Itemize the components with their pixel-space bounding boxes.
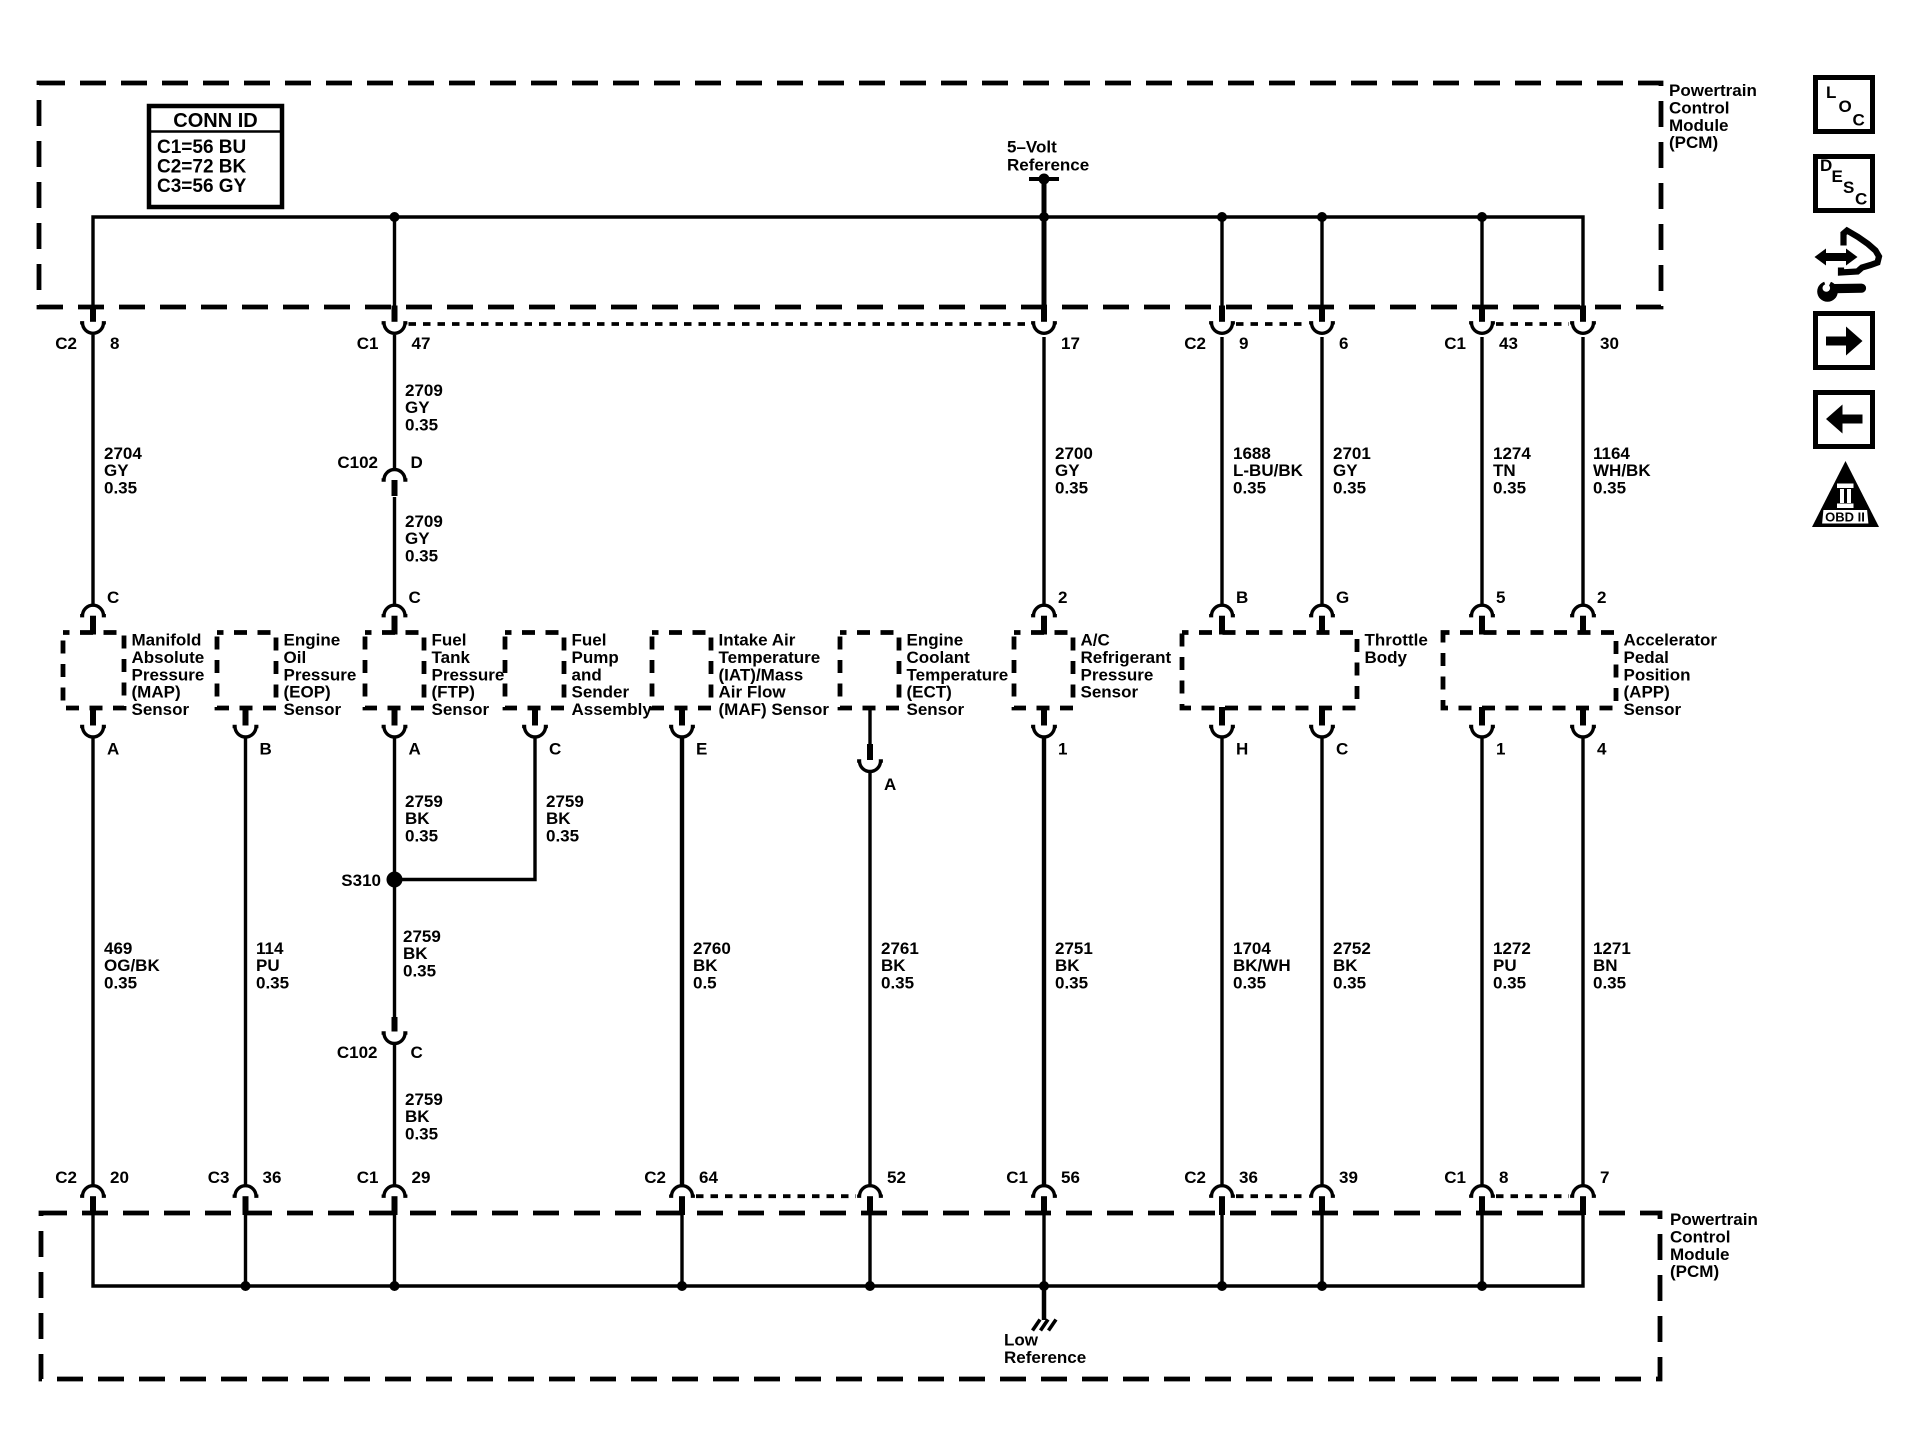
node: bus2 junction col 9 xyxy=(1317,1281,1327,1291)
svg-text:Manifold: Manifold xyxy=(132,631,202,650)
svg-text:4: 4 xyxy=(1597,740,1607,759)
svg-text:A: A xyxy=(107,740,119,759)
svg-text:A: A xyxy=(409,740,421,759)
node: bus2 junction col 3 xyxy=(390,1281,400,1291)
svg-text:Absolute: Absolute xyxy=(132,648,205,667)
svg-text:Sensor: Sensor xyxy=(432,700,490,719)
svg-text:1271: 1271 xyxy=(1593,939,1631,958)
svg-text:(MAP): (MAP) xyxy=(132,683,181,702)
svg-text:C2=72 BK: C2=72 BK xyxy=(157,157,247,178)
svg-text:L-BU/BK: L-BU/BK xyxy=(1233,461,1304,480)
svg-text:C1: C1 xyxy=(357,334,379,353)
svg-text:PU: PU xyxy=(1493,956,1517,975)
label 2700 GY 0.35 xyxy=(1055,444,1093,497)
label 2761 BK 0.35 xyxy=(881,939,919,992)
svg-text:0.35: 0.35 xyxy=(104,478,137,497)
svg-text:0.35: 0.35 xyxy=(1233,973,1266,992)
svg-text:C2: C2 xyxy=(1184,1168,1206,1187)
svg-text:2751: 2751 xyxy=(1055,939,1093,958)
svg-text:Sensor: Sensor xyxy=(284,700,342,719)
sensor top pin C col 1 xyxy=(80,588,119,635)
sensor bottom pin H col 8 xyxy=(1209,707,1248,759)
MAP sensor box xyxy=(63,631,204,720)
svg-text:A/C: A/C xyxy=(1081,631,1110,650)
svg-text:0.35: 0.35 xyxy=(1593,478,1626,497)
svg-text:Refrigerant: Refrigerant xyxy=(1081,648,1172,667)
wire 2760 BK col 5 xyxy=(680,739,684,1186)
svg-text:0.35: 0.35 xyxy=(405,1124,438,1143)
svg-text:114: 114 xyxy=(256,939,284,958)
wire 1272 PU 0.35 col 10 xyxy=(1480,739,1483,1186)
PCM top label xyxy=(1669,81,1757,152)
svg-text:2709: 2709 xyxy=(405,512,443,531)
svg-text:BK: BK xyxy=(403,944,428,963)
ECT sensor box xyxy=(840,631,1008,720)
wire: bus drop col 10 xyxy=(1480,217,1483,308)
svg-text:2709: 2709 xyxy=(405,381,443,400)
connector group dotted line 5-6 (bottom) xyxy=(696,1194,856,1198)
svg-text:S: S xyxy=(1843,178,1854,197)
svg-text:0.35: 0.35 xyxy=(256,973,289,992)
svg-text:BK: BK xyxy=(1055,956,1080,975)
svg-text:C1: C1 xyxy=(357,1168,379,1187)
svg-text:2759: 2759 xyxy=(405,792,443,811)
svg-text:O: O xyxy=(1839,97,1852,116)
wire: bus2 drop col 3 xyxy=(393,1214,396,1286)
sensor top pin G col 9 xyxy=(1309,588,1349,635)
svg-text:2: 2 xyxy=(1597,588,1606,607)
svg-text:Throttle: Throttle xyxy=(1365,631,1428,650)
node: bus2 junction col 7 xyxy=(1039,1281,1049,1291)
svg-text:GY: GY xyxy=(1333,461,1358,480)
icon left arrow box xyxy=(1816,393,1873,447)
svg-text:BK: BK xyxy=(546,809,571,828)
sensor bottom pin 1 col 10 xyxy=(1469,707,1505,759)
sensor top pin C col 3 xyxy=(382,588,421,635)
svg-text:BK: BK xyxy=(405,1107,430,1126)
svg-text:Engine: Engine xyxy=(284,631,341,650)
svg-text:BK/WH: BK/WH xyxy=(1233,956,1291,975)
svg-text:29: 29 xyxy=(412,1168,431,1187)
wire: bus2 drop col 8 xyxy=(1220,1214,1223,1286)
icon right arrow box xyxy=(1816,314,1873,368)
connector PCM pin 30 (top row col 11) xyxy=(1570,306,1619,354)
svg-text:39: 39 xyxy=(1339,1168,1358,1187)
connector PCM pin 36 (bottom row col 2) xyxy=(208,1168,282,1215)
svg-text:Oil: Oil xyxy=(284,648,307,667)
svg-text:G: G xyxy=(1336,588,1349,607)
svg-text:C: C xyxy=(549,740,561,759)
wire 2761 BK col 6 xyxy=(868,773,871,1185)
Throttle body box xyxy=(1182,631,1428,709)
wire 2704 GY col1 xyxy=(91,335,94,605)
svg-text:GY: GY xyxy=(405,398,430,417)
svg-text:C102: C102 xyxy=(337,1043,378,1062)
svg-text:C: C xyxy=(409,588,421,607)
svg-text:C2: C2 xyxy=(55,1168,77,1187)
connector PCM pin 6 (top row col 9) xyxy=(1309,306,1348,354)
svg-text:BK: BK xyxy=(693,956,718,975)
sensor top pin 2 col 7 xyxy=(1031,588,1067,635)
svg-text:5: 5 xyxy=(1496,588,1505,607)
svg-text:Control: Control xyxy=(1670,1227,1730,1246)
svg-text:1: 1 xyxy=(1058,740,1067,759)
svg-text:(PCM): (PCM) xyxy=(1669,133,1718,152)
svg-text:1272: 1272 xyxy=(1493,939,1531,958)
low reference ground xyxy=(1004,1286,1086,1367)
node: bus2 junction col 5 xyxy=(677,1281,687,1291)
svg-text:8: 8 xyxy=(110,334,119,353)
node: bus junction col 8 xyxy=(1217,212,1227,222)
svg-text:C: C xyxy=(1855,190,1867,209)
svg-text:8: 8 xyxy=(1499,1168,1508,1187)
svg-text:Pump: Pump xyxy=(572,648,619,667)
svg-text:C: C xyxy=(411,1043,423,1062)
svg-text:D: D xyxy=(411,453,423,472)
wire: bus2 drop col 5 xyxy=(680,1214,683,1286)
sensor top pin 2 col 11 xyxy=(1570,588,1606,635)
svg-text:C1: C1 xyxy=(1444,1168,1466,1187)
svg-text:64: 64 xyxy=(699,1168,718,1187)
svg-text:C1: C1 xyxy=(1444,334,1466,353)
wire 2709 GY lower col3 xyxy=(393,497,396,605)
wire: low reference bottom bus xyxy=(93,1214,1583,1286)
sensor bottom pin A col 3 xyxy=(382,707,421,759)
node: bus junction col 3 xyxy=(390,212,400,222)
svg-text:2760: 2760 xyxy=(693,939,731,958)
wire: bus2 drop col 9 xyxy=(1320,1214,1323,1286)
svg-text:2759: 2759 xyxy=(403,927,441,946)
sensor bottom pin B col 2 xyxy=(233,707,272,759)
svg-text:A: A xyxy=(884,775,896,794)
icon diagnostic wrench xyxy=(1841,231,1879,273)
sensor bottom pin 1 col 7 xyxy=(1031,707,1067,759)
EOP sensor box xyxy=(217,631,356,720)
icon DESC box xyxy=(1816,156,1873,211)
sensor top pin B col 8 xyxy=(1209,588,1248,635)
label 2759 BK 0.35 (pump leg) xyxy=(546,792,584,845)
svg-text:1164: 1164 xyxy=(1593,444,1630,463)
svg-text:0.35: 0.35 xyxy=(1333,478,1366,497)
svg-text:5–Volt: 5–Volt xyxy=(1007,138,1057,157)
wire 1274 TN col10 xyxy=(1480,337,1483,605)
label 469 OG/BK 0.35 xyxy=(104,939,160,992)
svg-text:E: E xyxy=(1832,167,1843,186)
wire: bus2 drop col 7 xyxy=(1042,1214,1045,1286)
connector PCM pin 7 (bottom row col 11) xyxy=(1570,1168,1609,1215)
wire 2752 BK 0.35 col 9 xyxy=(1320,739,1323,1186)
connector PCM pin 20 (bottom row col 1) xyxy=(55,1168,129,1215)
svg-text:0.35: 0.35 xyxy=(1233,478,1266,497)
connector C102 pin D xyxy=(337,453,422,496)
svg-text:Accelerator: Accelerator xyxy=(1624,631,1718,650)
svg-text:GY: GY xyxy=(405,529,430,548)
sensor bottom pin C col 9 xyxy=(1309,707,1348,759)
svg-text:C2: C2 xyxy=(1184,334,1206,353)
svg-text:B: B xyxy=(1236,588,1248,607)
svg-text:30: 30 xyxy=(1600,334,1619,353)
wire: bus drop col 3 xyxy=(393,217,396,308)
svg-text:GY: GY xyxy=(1055,461,1080,480)
icon LOC box xyxy=(1816,78,1873,132)
svg-text:Module: Module xyxy=(1669,116,1729,135)
svg-text:9: 9 xyxy=(1239,334,1248,353)
connector group dotted line 10-11 (bottom) xyxy=(1496,1194,1569,1198)
FTP sensor box xyxy=(365,631,504,720)
label 2709 GY 0.35 lower xyxy=(405,512,443,565)
svg-text:BK: BK xyxy=(1333,956,1358,975)
label 2760 BK 0.5 xyxy=(693,939,731,992)
label 2752 BK 0.35 xyxy=(1333,939,1371,992)
label 1271 BN 0.35 xyxy=(1593,939,1631,992)
PCM bottom label xyxy=(1670,1210,1758,1281)
svg-text:(APP): (APP) xyxy=(1624,683,1670,702)
svg-text:0.35: 0.35 xyxy=(1055,478,1088,497)
svg-text:H: H xyxy=(1236,740,1248,759)
sensor bottom pin 4 col 11 xyxy=(1570,707,1607,759)
svg-text:L: L xyxy=(1826,83,1836,102)
svg-text:Pedal: Pedal xyxy=(1624,648,1669,667)
label 1688 L-BU/BK 0.35 xyxy=(1233,444,1304,497)
svg-text:7: 7 xyxy=(1600,1168,1609,1187)
wire 2759 BK below C102 C xyxy=(393,1045,396,1185)
connector C102 pin C xyxy=(337,1017,423,1062)
wire 1704 BK/WH 0.35 col 8 xyxy=(1220,739,1223,1186)
node: bus junction col 10 xyxy=(1477,212,1487,222)
connector PCM pin 36 (bottom row col 8) xyxy=(1184,1168,1258,1215)
wire 1688 L-BU/BK col8 xyxy=(1220,337,1223,605)
svg-text:C: C xyxy=(107,588,119,607)
svg-text:WH/BK: WH/BK xyxy=(1593,461,1651,480)
connector group dotted line 8-9 (top) xyxy=(1236,322,1308,326)
svg-text:TN: TN xyxy=(1493,461,1516,480)
wire 2759 BK below S310 xyxy=(393,880,396,1018)
svg-text:S310: S310 xyxy=(341,871,381,890)
svg-text:C3=56 GY: C3=56 GY xyxy=(157,176,247,197)
svg-text:Powertrain: Powertrain xyxy=(1670,1210,1758,1229)
svg-text:B: B xyxy=(260,740,272,759)
svg-text:C3: C3 xyxy=(208,1168,230,1187)
A/C refrigerant pressure sensor box xyxy=(1014,631,1172,709)
svg-text:Fuel: Fuel xyxy=(432,631,467,650)
connector group dotted line 8-9 (bottom) xyxy=(1236,1194,1308,1198)
svg-text:Engine: Engine xyxy=(907,631,964,650)
svg-text:Reference: Reference xyxy=(1007,156,1089,175)
svg-text:20: 20 xyxy=(110,1168,129,1187)
svg-text:2700: 2700 xyxy=(1055,444,1093,463)
svg-text:43: 43 xyxy=(1499,334,1518,353)
sensor bottom pin A col 1 xyxy=(80,707,119,759)
wire 2709 GY upper col3 xyxy=(393,335,396,468)
svg-text:Temperature: Temperature xyxy=(719,648,821,667)
svg-text:C102: C102 xyxy=(337,453,378,472)
label 1272 PU 0.35 xyxy=(1493,939,1531,992)
svg-text:Coolant: Coolant xyxy=(907,648,971,667)
svg-text:C1: C1 xyxy=(1006,1168,1028,1187)
svg-text:Tank: Tank xyxy=(432,648,471,667)
connector group dotted line 3-7 (top) xyxy=(409,322,1031,326)
wire 2759 BK from FTP pin A xyxy=(393,739,396,880)
svg-text:(MAF) Sensor: (MAF) Sensor xyxy=(719,700,830,719)
svg-text:Pressure: Pressure xyxy=(284,665,357,684)
label 2759 BK 0.35 (below S310) xyxy=(403,927,441,980)
IAT/MAF sensor box xyxy=(652,631,829,720)
svg-text:and: and xyxy=(572,665,602,684)
svg-text:Intake Air: Intake Air xyxy=(719,631,796,650)
svg-text:1274: 1274 xyxy=(1493,444,1531,463)
svg-text:Low: Low xyxy=(1004,1331,1039,1350)
svg-text:0.35: 0.35 xyxy=(1333,973,1366,992)
wire 2751 BK col 7 xyxy=(1042,739,1046,1186)
svg-text:Module: Module xyxy=(1670,1245,1730,1264)
svg-text:Reference: Reference xyxy=(1004,1348,1086,1367)
svg-text:Pressure: Pressure xyxy=(1081,665,1154,684)
connector PCM pin 43 (top row col 10) xyxy=(1444,306,1518,354)
svg-text:2759: 2759 xyxy=(405,1090,443,1109)
svg-text:C: C xyxy=(1853,111,1865,130)
connector PCM pin 64 (bottom row col 5) xyxy=(644,1168,718,1215)
connector PCM pin 17 (top row col 7) xyxy=(1031,306,1080,354)
connector group dotted line 10-11 (top) xyxy=(1496,322,1569,326)
svg-text:C2: C2 xyxy=(55,334,77,353)
wire: bus drop col 9 xyxy=(1320,217,1323,308)
svg-text:PU: PU xyxy=(256,956,280,975)
svg-text:2752: 2752 xyxy=(1333,939,1371,958)
svg-text:0.35: 0.35 xyxy=(104,973,137,992)
svg-text:52: 52 xyxy=(887,1168,906,1187)
connector PCM pin 52 (bottom row col 6) xyxy=(857,1168,906,1215)
svg-text:BK: BK xyxy=(405,809,430,828)
sensor top pin 5 col 10 xyxy=(1469,588,1505,635)
label 2709 GY 0.35 upper xyxy=(405,381,443,434)
connector PCM pin 29 (bottom row col 3) xyxy=(357,1168,431,1215)
wire: 5V thick drop xyxy=(1042,179,1047,308)
sensor bottom pin E col 5 xyxy=(669,707,707,759)
svg-text:2704: 2704 xyxy=(104,444,142,463)
svg-text:BN: BN xyxy=(1593,956,1618,975)
node: bus junction col 7 xyxy=(1039,212,1049,222)
svg-text:0.5: 0.5 xyxy=(693,973,717,992)
connector PCM pin 8 (bottom row col 10) xyxy=(1444,1168,1508,1215)
svg-text:Sensor: Sensor xyxy=(907,700,965,719)
wire 2701 GY col9 xyxy=(1320,337,1323,605)
svg-text:47: 47 xyxy=(412,334,431,353)
PCM bottom dashed box xyxy=(41,1213,1660,1379)
svg-text:Sender: Sender xyxy=(572,683,630,702)
svg-text:0.35: 0.35 xyxy=(546,826,579,845)
svg-text:0.35: 0.35 xyxy=(881,973,914,992)
svg-text:Powertrain: Powertrain xyxy=(1669,81,1757,100)
svg-text:0.35: 0.35 xyxy=(405,415,438,434)
svg-text:Sensor: Sensor xyxy=(132,700,190,719)
svg-text:2759: 2759 xyxy=(546,792,584,811)
svg-text:C2: C2 xyxy=(644,1168,666,1187)
svg-text:CONN ID: CONN ID xyxy=(173,110,257,132)
APP sensor box xyxy=(1443,631,1717,720)
svg-text:BK: BK xyxy=(881,956,906,975)
icon OBD II triangle xyxy=(1812,461,1879,527)
svg-text:1: 1 xyxy=(1496,740,1505,759)
label 114 PU 0.35 xyxy=(256,939,289,992)
svg-text:(ECT): (ECT) xyxy=(907,683,952,702)
svg-text:(PCM): (PCM) xyxy=(1670,1262,1719,1281)
svg-text:0.35: 0.35 xyxy=(1493,478,1526,497)
label 2751 BK 0.35 xyxy=(1055,939,1093,992)
node: bus junction col 9 xyxy=(1317,212,1327,222)
connector PCM pin 9 (top row col 8) xyxy=(1184,306,1248,354)
node: bus2 junction col 6 xyxy=(865,1281,875,1291)
svg-text:0.35: 0.35 xyxy=(1055,973,1088,992)
CONN ID table xyxy=(149,106,282,207)
svg-text:2701: 2701 xyxy=(1333,444,1371,463)
svg-text:0.35: 0.35 xyxy=(405,546,438,565)
connector PCM pin 56 (bottom row col 7) xyxy=(1006,1168,1080,1215)
svg-text:56: 56 xyxy=(1061,1168,1080,1187)
wire 114 PU 0.35 col 2 xyxy=(244,739,247,1186)
svg-text:E: E xyxy=(696,740,707,759)
svg-text:0.35: 0.35 xyxy=(403,961,436,980)
label 1704 BK/WH 0.35 xyxy=(1233,939,1291,992)
svg-text:469: 469 xyxy=(104,939,132,958)
svg-text:36: 36 xyxy=(263,1168,282,1187)
wire: bus2 drop col 2 xyxy=(244,1214,247,1286)
svg-text:Temperature: Temperature xyxy=(907,665,1009,684)
svg-text:2: 2 xyxy=(1058,588,1067,607)
svg-text:(EOP): (EOP) xyxy=(284,683,331,702)
label 2759 BK 0.35 (bottom) xyxy=(405,1090,443,1143)
sensor bottom pin A (ECT) col 6 xyxy=(857,708,896,794)
svg-text:6: 6 xyxy=(1339,334,1348,353)
node: bus2 junction col 8 xyxy=(1217,1281,1227,1291)
svg-text:0.35: 0.35 xyxy=(1493,973,1526,992)
svg-text:Pressure: Pressure xyxy=(432,665,505,684)
node: bus2 junction col 2 xyxy=(241,1281,251,1291)
wire 1164 WH/BK col11 xyxy=(1581,337,1584,605)
svg-text:17: 17 xyxy=(1061,334,1080,353)
svg-text:Assembly: Assembly xyxy=(572,700,653,719)
svg-text:C: C xyxy=(1336,740,1348,759)
svg-text:Fuel: Fuel xyxy=(572,631,607,650)
svg-text:36: 36 xyxy=(1239,1168,1258,1187)
svg-text:0.35: 0.35 xyxy=(405,826,438,845)
connector PCM pin 8 (top row col 1) xyxy=(55,306,119,354)
wire: bus2 drop col 6 xyxy=(868,1214,871,1286)
svg-text:Body: Body xyxy=(1365,648,1408,667)
connector PCM pin 47 (top row col 3) xyxy=(357,306,431,354)
sensor bottom pin C col 4 xyxy=(522,707,561,759)
label 2759 BK 0.35 (FTP leg) xyxy=(405,792,443,845)
PCM top dashed box xyxy=(39,83,1661,307)
svg-text:Air Flow: Air Flow xyxy=(719,683,787,702)
wire 2759 BK from fuel pump pin C xyxy=(395,739,536,880)
svg-text:Position: Position xyxy=(1624,665,1691,684)
svg-text:(FTP): (FTP) xyxy=(432,683,475,702)
splice S310 xyxy=(341,871,402,890)
wire: bus2 drop col 10 xyxy=(1480,1214,1483,1286)
wire 1271 BN 0.35 col 11 xyxy=(1581,739,1584,1186)
wire 2700 GY col7 xyxy=(1042,337,1045,605)
svg-text:(IAT)/Mass: (IAT)/Mass xyxy=(719,665,804,684)
label 2704 GY 0.35 xyxy=(104,444,142,497)
svg-text:1688: 1688 xyxy=(1233,444,1271,463)
svg-text:GY: GY xyxy=(104,461,129,480)
5-Volt Reference terminal xyxy=(1007,138,1089,185)
svg-text:D: D xyxy=(1820,156,1832,175)
svg-text:Pressure: Pressure xyxy=(132,665,205,684)
svg-text:Control: Control xyxy=(1669,98,1729,117)
svg-text:2761: 2761 xyxy=(881,939,919,958)
svg-text:Sensor: Sensor xyxy=(1081,683,1139,702)
